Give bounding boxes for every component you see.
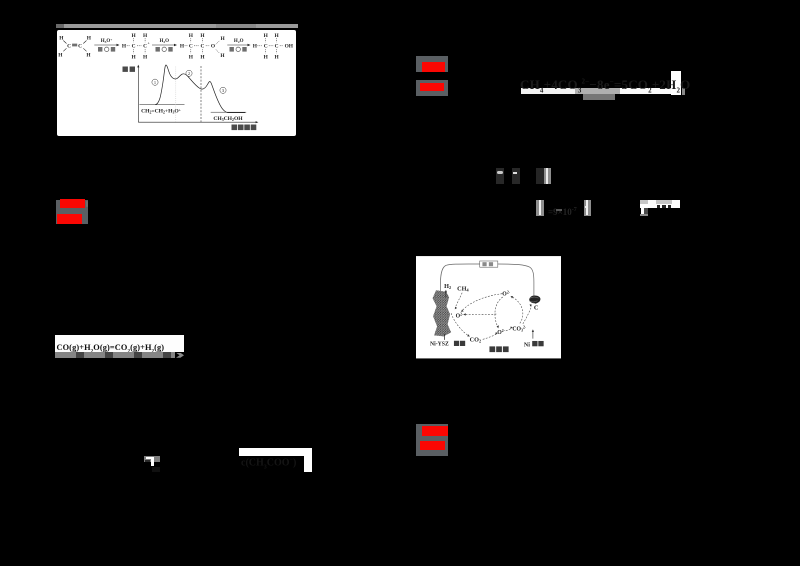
svg-text:+: + <box>147 41 149 45</box>
figure 2: electrolysis cell (white box) <box>416 256 561 359</box>
circled step numbers <box>151 70 225 93</box>
svg-text:Ni-YSZ: Ni-YSZ <box>430 342 449 348</box>
svg-text:C: C <box>143 43 147 49</box>
left answer red line 2 <box>57 214 82 224</box>
svg-text:CH4: CH4 <box>457 286 469 293</box>
svg-text:O: O <box>210 43 214 49</box>
CO formula highlight <box>55 335 185 352</box>
svg-text:Ni: Ni <box>524 343 530 349</box>
right formula dark text over band <box>520 77 690 97</box>
molten salt label 熔融盐 <box>489 347 508 353</box>
carbon scribble <box>529 296 540 304</box>
right wire <box>498 264 534 296</box>
energy diagram axes <box>138 66 256 122</box>
left electrode (speckled) <box>433 291 452 337</box>
svg-text:H2O: H2O <box>159 39 169 44</box>
svg-text:C: C <box>131 43 135 49</box>
right mid text bits (a): row of char cells with bracket <box>496 168 504 185</box>
energy curve <box>155 65 245 113</box>
svg-text:CO2: CO2 <box>470 337 481 344</box>
figure 1: mechanism + energy diagram (white box) <box>57 30 296 136</box>
svg-text:OH: OH <box>284 43 293 49</box>
svg-text:CH2=CH2+H3O+: CH2=CH2+H3O+ <box>141 108 181 114</box>
svg-text:C: C <box>67 43 71 49</box>
svg-text:H2O: H2O <box>233 39 243 44</box>
left answer red line 1 <box>60 199 86 208</box>
left answer label: gray block <box>56 200 88 225</box>
white L shape <box>239 448 312 456</box>
svg-text:C: C <box>200 43 204 49</box>
arrow 2 + H2O / step2 <box>152 44 176 46</box>
right formula highlight band <box>521 88 671 94</box>
reactant level + label <box>139 103 184 105</box>
right mid text bits (c): white cell with kJ/mol <box>640 200 680 208</box>
y-axis label 能量 <box>122 66 135 71</box>
product level + label <box>210 111 246 113</box>
top gray bar above figure 1 <box>56 24 298 28</box>
svg-text:CH3CH2OH: CH3CH2OH <box>213 116 243 122</box>
svg-text:C: C <box>263 43 267 49</box>
dashed guide lines <box>174 66 176 122</box>
left wire <box>440 264 479 291</box>
bottom right answer label <box>416 424 448 457</box>
svg-text:H2: H2 <box>444 284 451 291</box>
right answer label 2 <box>416 80 448 96</box>
svg-text:C: C <box>78 43 82 49</box>
dashed arrows <box>451 293 531 340</box>
power supply box 电源 <box>480 261 498 267</box>
small gray patch with white 7 glyph <box>144 456 160 463</box>
right mid text bits (b): [ formula ] <box>536 200 544 216</box>
arrow 3 + H2O / step3 <box>227 44 249 46</box>
svg-text:1: 1 <box>153 79 155 84</box>
arrow 1 + H3O+ / step1 <box>94 44 118 46</box>
svg-text:2: 2 <box>187 71 189 76</box>
svg-text:C: C <box>188 43 192 49</box>
right answer label top <box>416 56 448 72</box>
svg-text:C: C <box>274 43 278 49</box>
svg-text:C: C <box>534 305 539 312</box>
x-axis label 反应进程 <box>231 124 256 130</box>
